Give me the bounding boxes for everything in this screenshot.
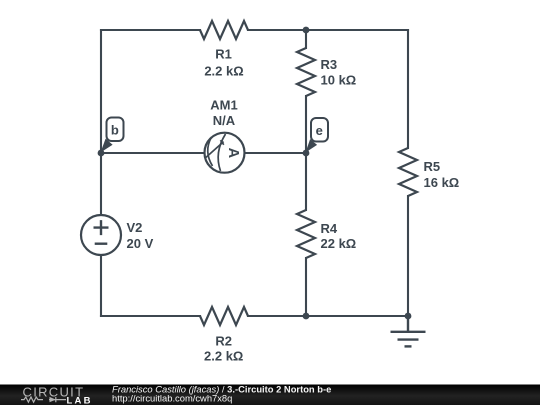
svg-text:http://circuitlab.com/cwh7x8q: http://circuitlab.com/cwh7x8q	[112, 393, 232, 404]
svg-text:V2: V2	[127, 220, 143, 235]
svg-text:2.2 kΩ: 2.2 kΩ	[204, 64, 243, 79]
svg-text:e: e	[316, 123, 323, 138]
svg-text:2.2 kΩ: 2.2 kΩ	[204, 349, 243, 364]
svg-text:AM1: AM1	[210, 97, 237, 112]
svg-text:20 V: 20 V	[127, 236, 154, 251]
svg-text:N/A: N/A	[213, 113, 236, 128]
svg-text:b: b	[111, 123, 119, 138]
svg-text:R4: R4	[321, 221, 338, 236]
svg-text:R2: R2	[215, 334, 232, 349]
svg-text:LAB: LAB	[67, 395, 93, 405]
svg-text:R1: R1	[215, 47, 232, 62]
svg-text:16 kΩ: 16 kΩ	[424, 175, 460, 190]
svg-text:10 kΩ: 10 kΩ	[321, 73, 357, 88]
svg-text:A: A	[225, 148, 241, 159]
svg-text:22 kΩ: 22 kΩ	[321, 236, 357, 251]
svg-text:R3: R3	[321, 57, 338, 72]
svg-text:R5: R5	[424, 159, 441, 174]
